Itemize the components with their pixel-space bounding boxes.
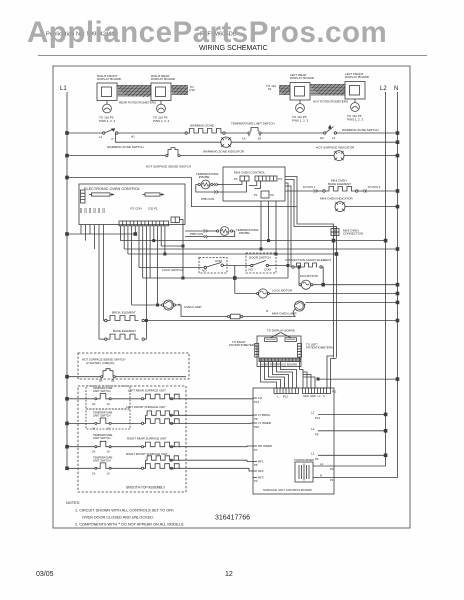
surface unit control board U8 [253, 388, 334, 494]
junction row3 N [396, 205, 399, 208]
svg-text:2A: 2A [92, 471, 95, 475]
wire row1 mid [118, 132, 185, 134]
svg-text:LIMIT SWITCH: LIMIT SWITCH [93, 413, 111, 417]
U7 bottom pin wires to SUCB [261, 362, 297, 389]
svg-text:P12: P12 [315, 416, 321, 420]
svg-text:MINI OVEN INDICATOR: MINI OVEN INDICATOR [320, 197, 354, 201]
svg-text:L2: L2 [311, 411, 315, 415]
wire row 278 [143, 277, 288, 279]
svg-text:LT INNER: LT INNER [258, 421, 271, 425]
junction L1 row4 [66, 233, 69, 236]
svg-text:GRN: GRN [303, 394, 309, 398]
surface unit element left rear [111, 389, 180, 400]
node N label [394, 86, 398, 92]
connector P3 on U6 [234, 176, 249, 181]
svg-text:WARMING ZONE: WARMING ZONE [190, 124, 214, 128]
svg-text:OVEN LAMP: OVEN LAMP [184, 305, 202, 309]
junction row7 [335, 253, 338, 256]
svg-text:P2: P2 [271, 193, 275, 197]
svg-text:LIMIT SWITCH: LIMIT SWITCH [93, 459, 111, 463]
U8 left stubs and labels [253, 396, 272, 483]
hot surface sense switch lower [67, 369, 186, 383]
svg-text:L2: L2 [311, 451, 315, 455]
junction row1b N [396, 141, 399, 144]
convection assist element [285, 258, 331, 268]
wire from EOC P5A down [180, 220, 184, 279]
junction pin row4 [134, 233, 137, 236]
label USER INTERFACE BOARD [261, 362, 297, 366]
wire row7 [128, 253, 337, 255]
wire mini oven bake row [285, 190, 325, 193]
wire N tap row [318, 378, 398, 380]
wire into lock switch [139, 267, 204, 269]
svg-text:1A: 1A [242, 137, 246, 141]
svg-text:RF1: RF1 [258, 460, 264, 464]
svg-text:M OVN 2: M OVN 2 [368, 185, 381, 189]
junction broil row rail [145, 319, 147, 321]
svg-text:REAR POTENTIOMETERS: REAR POTENTIOMETERS [119, 101, 156, 105]
wire row4 [67, 233, 135, 235]
label REAR POTENTIOMETERS [119, 101, 156, 105]
svg-text:P5B CON: P5B CON [201, 197, 214, 201]
svg-text:N: N [323, 394, 325, 398]
svg-text:P4: P4 [279, 177, 283, 181]
svg-text:DISPLAY BOARD: DISPLAY BOARD [151, 77, 176, 81]
wire transformer to L2 end [313, 462, 386, 471]
schematic outer border [53, 66, 410, 528]
label WARMING ZONE SWITCH [107, 145, 144, 149]
svg-text:1A: 1A [107, 471, 110, 475]
svg-text:N: N [394, 86, 398, 92]
wire row1 to N [337, 132, 398, 134]
electronic oven control U5 [79, 184, 185, 225]
svg-text:P9: P9 [315, 432, 319, 436]
svg-text:MINI OVEN LAMP: MINI OVEN LAMP [272, 312, 297, 316]
svg-text:P4: P4 [330, 467, 334, 471]
svg-text:BROIL ELEMENT: BROIL ELEMENT [112, 311, 136, 315]
svg-text:P2 CON: P2 CON [131, 207, 142, 211]
connector P12 strip on U8 top [274, 388, 299, 399]
svg-text:P1: P1 [330, 478, 334, 482]
svg-text:COM: COM [264, 268, 272, 272]
header rule [38, 55, 427, 57]
pair wires to SUCB strip [327, 356, 337, 388]
temperature limit switch C label [93, 433, 113, 440]
U8 right stub L2 P6 [311, 451, 387, 461]
wire row1 left [67, 132, 103, 134]
svg-text:NO: NO [249, 268, 254, 272]
U8 right stub L2 P12 [311, 411, 387, 421]
svg-text:FAN MOTOR: FAN MOTOR [300, 274, 319, 278]
svg-text:ELECTRONIC OVEN CONTROL: ELECTRONIC OVEN CONTROL [84, 187, 140, 191]
junction row1 N [396, 132, 399, 135]
mini oven control U6 [223, 167, 285, 201]
wire row2 left [67, 155, 166, 157]
svg-text:1: 1 [277, 395, 279, 399]
temperature limit switch C [67, 441, 111, 453]
junction lock motor row N [396, 292, 399, 295]
svg-text:TEMPERATURE LIMIT SWITCH: TEMPERATURE LIMIT SWITCH [231, 122, 275, 126]
heating element warming zone [185, 124, 225, 135]
wire transformer to N end [313, 473, 398, 482]
svg-text:PINS 1, 2, 3: PINS 1, 2, 3 [347, 117, 364, 121]
oven lamp L1a [132, 300, 202, 310]
svg-text:P1: P1 [254, 193, 258, 197]
svg-text:P5: P5 [254, 463, 258, 467]
temperature limit switch row1 [231, 122, 275, 141]
wire row5 to L2 [121, 240, 386, 242]
U8 right stub L2 P9 [311, 427, 387, 437]
footer page number [225, 571, 233, 578]
svg-text:DISPLAY BOARD: DISPLAY BOARD [345, 75, 370, 79]
warming zone switch right SW2 [320, 126, 379, 141]
door switch S4 [246, 253, 276, 273]
junction pins on row5 [153, 240, 155, 242]
svg-text:CONNECTION: CONNECTION [343, 232, 363, 236]
U6 interior wires [223, 181, 261, 192]
svg-text:LEFT FRONT SURFACE UNIT: LEFT FRONT SURFACE UNIT [126, 405, 166, 409]
svg-text:GRD: GRD [310, 394, 316, 398]
label P2 CON and C/D P1 [131, 207, 159, 211]
header publication number [46, 32, 237, 38]
temperature probe circuit main oven [185, 227, 258, 239]
svg-text:P6: P6 [315, 457, 319, 461]
svg-text:C/D P1: C/D P1 [148, 207, 158, 211]
svg-text:BAKE ELEMENT: BAKE ELEMENT [113, 329, 136, 333]
wire row3 to N [345, 206, 398, 208]
svg-text:P1: P1 [268, 87, 272, 91]
connector mini oven connection [331, 229, 363, 236]
svg-text:12: 12 [225, 571, 233, 578]
junction U6 pins [260, 248, 262, 250]
junction L1 sense row [66, 375, 69, 378]
fuse F1 [228, 314, 295, 319]
part number 316417766 [215, 515, 250, 522]
hot surface sense switch [146, 148, 191, 169]
svg-text:HOT SURFACE SENSE SWITCH: HOT SURFACE SENSE SWITCH [146, 165, 191, 169]
label HOT POTENTIOMETERS [313, 100, 348, 104]
surface unit element left front dual [111, 405, 180, 425]
display connectors on U7 [265, 333, 297, 342]
surface unit element right rear [111, 437, 180, 448]
connector U7 left [255, 343, 333, 358]
svg-text:DOOR SWITCH: DOOR SWITCH [249, 256, 271, 260]
svg-text:1A: 1A [107, 426, 110, 430]
wire L2 bus vertical [385, 92, 387, 466]
label TO P10 [190, 85, 196, 92]
connector U7 right [298, 344, 302, 358]
svg-text:2A: 2A [92, 426, 95, 430]
transformer T1 [294, 458, 314, 482]
wire row2 to N [344, 155, 398, 157]
svg-text:RIGHT REAR SURFACE UNIT: RIGHT REAR SURFACE UNIT [127, 437, 167, 441]
connector P11 strip on U8 top [303, 388, 337, 398]
svg-text:PINS 1, 2, 3: PINS 1, 2, 3 [153, 119, 170, 123]
indicator lamp warming zone [203, 137, 245, 154]
svg-text:316417766: 316417766 [215, 515, 250, 522]
U5 strip pin wires [121, 226, 165, 321]
wire L1 bus vertical [66, 92, 68, 468]
label MINI OVEN CONTROL [234, 171, 266, 175]
bake element [99, 321, 146, 341]
temperature limit switch D [67, 463, 111, 475]
svg-text:(2 SHOWN, 4 REQ'D): (2 SHOWN, 4 REQ'D) [86, 361, 114, 365]
lock motor M2 [235, 289, 293, 299]
svg-text:BAKE ELEMENT: BAKE ELEMENT [328, 182, 351, 186]
potentiometer below U1 [99, 101, 116, 123]
svg-text:LOCK MOTOR: LOCK MOTOR [272, 289, 293, 293]
wire rowA to U8 [173, 398, 253, 400]
label to right potentiometer [229, 340, 256, 347]
wire row1 [225, 132, 248, 134]
svg-text:1B: 1B [99, 379, 103, 383]
svg-text:2B: 2B [111, 379, 115, 383]
junction door com [287, 264, 289, 266]
indicator lamp hot surface [316, 146, 355, 161]
header title WIRING SCHEMATIC [199, 45, 268, 52]
wire rowD top to U8 [172, 460, 253, 461]
junction row2 N [396, 154, 399, 157]
svg-text:2. COMPONENTS WITH * DO NOT: 2. COMPONENTS WITH * DO NOT APPEAR ON AL… [75, 522, 184, 527]
junction broil row N [396, 319, 399, 322]
connector P7 on U5 left [81, 190, 86, 203]
junction N tap [396, 378, 399, 381]
svg-text:CONVECTION ASSIST ELEMENT: CONVECTION ASSIST ELEMENT [285, 258, 331, 262]
svg-text:P3: P3 [234, 177, 238, 181]
svg-text:LOCK SWITCH: LOCK SWITCH [162, 268, 183, 272]
svg-text:1A: 1A [107, 402, 110, 406]
wire convection right down to fan row [322, 267, 323, 285]
potentiometer below U2 [153, 101, 170, 123]
svg-text:P: P [112, 137, 114, 141]
ribbon cable between U3 and U4 [310, 84, 345, 96]
node L2 label [380, 86, 387, 92]
label ELECTRONIC OVEN CONTROL [84, 187, 140, 191]
junction pair row5 [332, 239, 335, 242]
connector P1 P2 on U6 [254, 191, 274, 198]
svg-text:PROBE: PROBE [239, 231, 250, 235]
U5 pin tick labels [80, 208, 104, 213]
wire row3 [67, 178, 297, 207]
svg-text:L2: L2 [380, 86, 387, 92]
svg-text:WARMING ZONE INDICATOR: WARMING ZONE INDICATOR [203, 150, 245, 154]
potentiometer below U3 [292, 100, 309, 122]
indicator lamp mini oven [320, 197, 354, 212]
warming zone switch SW1 [99, 129, 135, 141]
svg-text:PINS 1, 2, 3: PINS 1, 2, 3 [292, 118, 309, 122]
junction L1 rowA [66, 397, 69, 400]
wire lock vertical [234, 265, 236, 293]
svg-text:NOTES:: NOTES: [66, 501, 80, 505]
wires U6 right exits down bundle [285, 177, 337, 358]
svg-text:L2: L2 [332, 136, 336, 140]
svg-text:RF3: RF3 [258, 476, 264, 480]
U6 bottom pin wires [261, 201, 276, 254]
svg-text:NO: NO [202, 269, 207, 273]
svg-text:RIGHT FRONT SURFACE UNIT: RIGHT FRONT SURFACE UNIT [126, 452, 168, 456]
temperature limit switch A [67, 393, 111, 405]
mini oven lamp L2a [266, 301, 306, 317]
wire mini oven lamp row to N [306, 301, 398, 303]
svg-text:P14: P14 [254, 400, 260, 404]
U7 right connector drops [300, 357, 316, 388]
wire door com to bundle [269, 265, 289, 267]
svg-text:LT BROIL: LT BROIL [258, 413, 271, 417]
junction fan row N [396, 283, 399, 286]
connector P4 on U6 [255, 176, 282, 181]
svg-text:PROBE: PROBE [199, 175, 210, 179]
temperature limit switch D label [93, 456, 113, 463]
label SURFACE UNIT CONTROL BOARD [263, 488, 313, 492]
svg-text:WARMING ZONE SWITCH: WARMING ZONE SWITCH [342, 128, 379, 132]
svg-text:P10: P10 [190, 88, 196, 92]
wire bake row to N [358, 190, 399, 193]
svg-text:LEFT REAR SURFACE UNIT: LEFT REAR SURFACE UNIT [128, 389, 166, 393]
svg-text:RR INNER: RR INNER [258, 444, 272, 448]
svg-text:P10: P10 [254, 425, 260, 429]
svg-text:L1: L1 [60, 86, 67, 92]
junction row6 N [396, 248, 399, 251]
ribbon cable between U1 and U2 [117, 85, 151, 97]
lock switch S3 [162, 258, 227, 274]
display board U3 left rear [290, 73, 315, 100]
watermark AppliancePartsPros.com [27, 16, 464, 50]
svg-text:USER INTERFACE BOARD: USER INTERFACE BOARD [261, 362, 297, 366]
svg-text:P3: P3 [254, 479, 258, 483]
wire rowD bottom to U8 [173, 468, 253, 471]
broil element [104, 311, 145, 322]
connector U7 bottom strip [259, 358, 300, 362]
svg-text:P7: P7 [254, 448, 258, 452]
svg-text:L2: L2 [320, 462, 324, 466]
svg-text:TRANSFORMER: TRANSFORMER [294, 458, 314, 462]
display board U4 left front [345, 72, 370, 99]
temperature limit switch B dashed box [86, 409, 130, 429]
wire rowB bottom to U8 [173, 422, 253, 424]
junction L1 row3 [66, 176, 69, 179]
dashed box hot surface sense switches [78, 353, 189, 379]
display board U2 right rear [151, 74, 176, 101]
U5 left pin wires [81, 225, 104, 340]
junction row5 L2 [384, 239, 387, 242]
junction mini lamp row N [396, 301, 399, 304]
wire pin jog 246 [161, 245, 183, 247]
svg-text:COM: COM [215, 259, 223, 263]
wire row1b to N [231, 141, 397, 143]
wire indicator tap [116, 133, 221, 142]
svg-text:03/05: 03/05 [36, 571, 54, 578]
svg-text:P5B CON: P5B CON [190, 232, 203, 236]
relay K2 in U5 [143, 193, 164, 196]
svg-text:1. CIRCUIT SHOWN WITH ALL CON: 1. CIRCUIT SHOWN WITH ALL CONTROLS SET T… [75, 509, 174, 513]
wire row1 right [261, 132, 324, 134]
wire fan row to N [323, 284, 398, 286]
svg-text:WARMING ZONE SWITCH: WARMING ZONE SWITCH [107, 145, 144, 149]
wire row2 right [180, 155, 334, 157]
svg-text:LIMIT SWITCH: LIMIT SWITCH [93, 436, 111, 440]
svg-text:P12: P12 [283, 395, 288, 399]
junction L1 rowD [66, 467, 69, 470]
svg-text:M OVN 1: M OVN 1 [303, 185, 316, 189]
svg-text:L2: L2 [318, 394, 321, 398]
svg-text:RF2: RF2 [258, 469, 264, 473]
svg-text:SMOOTH-TOP ASSEMBLY: SMOOTH-TOP ASSEMBLY [126, 486, 166, 490]
junction lock vertical bottom [233, 277, 236, 280]
svg-text:2A: 2A [92, 450, 95, 454]
svg-text:*: * [178, 304, 181, 310]
svg-text:*: * [266, 310, 269, 316]
label TO DISPLAY BOARD [267, 329, 295, 333]
svg-text:N: N [320, 473, 322, 477]
potentiometer below U4 [347, 99, 364, 121]
svg-text:POTENTIOMETERS: POTENTIOMETERS [229, 343, 256, 347]
svg-text:PINS 1, 2, 3: PINS 1, 2, 3 [99, 119, 116, 123]
svg-text:P11: P11 [332, 390, 337, 394]
svg-text:H1: H1 [131, 135, 135, 139]
temperature probe mini oven [196, 172, 223, 201]
notes text [66, 501, 184, 527]
svg-text:POTENTIOMETERS: POTENTIOMETERS [306, 346, 333, 350]
svg-text:1A: 1A [107, 450, 110, 454]
junction L1 row2 [66, 154, 69, 157]
node L1 label [60, 86, 67, 92]
junction L1 rowC [66, 445, 69, 448]
junction row 278 [182, 277, 184, 279]
svg-text:HOT POTENTIOMETERS: HOT POTENTIOMETERS [313, 100, 348, 104]
svg-text:DISPLAY BOARD: DISPLAY BOARD [97, 77, 122, 81]
ribbon cable right of U2 to P10 [171, 85, 188, 95]
display board U1 right front [97, 74, 122, 101]
fan motor M1 [298, 266, 323, 290]
wire lock motor row to N [269, 293, 397, 295]
wire row6 to N [124, 248, 397, 250]
dashed box smoothtop assembly [78, 386, 186, 492]
svg-text:2A: 2A [258, 137, 262, 141]
svg-text:L2: L2 [311, 427, 315, 431]
wire broil row to N [144, 320, 397, 322]
svg-text:HOT SURFACE INDICATOR: HOT SURFACE INDICATOR [316, 146, 355, 150]
temperature limit switch B [67, 418, 111, 430]
connector strip P1 on U5 bottom [119, 221, 169, 226]
svg-text:2A: 2A [92, 402, 95, 406]
wire lock com to door no [223, 264, 250, 266]
ribbon cable into U3 [279, 85, 290, 95]
temperature limit switch A dashed box [86, 386, 130, 409]
wire rowC to U8 [173, 445, 253, 448]
footer date [36, 571, 54, 578]
label TO J1A P1 [266, 84, 276, 91]
junction L1 rowB [66, 422, 69, 425]
junction L1 row1 [66, 132, 69, 135]
svg-text:LIMIT SWITCH: LIMIT SWITCH [93, 389, 111, 393]
wire rowB top to U8 [172, 414, 253, 416]
junction fan row [322, 283, 325, 286]
connector P5A on U5 right [171, 217, 180, 223]
svg-text:TO DISPLAY BOARD: TO DISPLAY BOARD [267, 329, 295, 333]
relay K1 in U5 [89, 193, 114, 196]
svg-text:MINI OVEN CONTROL: MINI OVEN CONTROL [234, 171, 266, 175]
wire N bus vertical [397, 92, 399, 478]
wire oven lamp to fuse row [176, 305, 228, 317]
heating element mini oven bake [303, 179, 381, 193]
svg-text:DISPLAY BOARD: DISPLAY BOARD [290, 76, 315, 80]
svg-text:H2: H2 [320, 136, 324, 140]
svg-text:L1: L1 [99, 135, 103, 139]
user interface board U7 [257, 336, 301, 367]
svg-text:SURFACE UNIT CONTROL BOARD: SURFACE UNIT CONTROL BOARD [263, 488, 313, 492]
surface unit element right front dual [111, 452, 180, 469]
svg-text:OVEN DOOR CLOSED AND UNLOCKED.: OVEN DOOR CLOSED AND UNLOCKED. [82, 516, 154, 520]
